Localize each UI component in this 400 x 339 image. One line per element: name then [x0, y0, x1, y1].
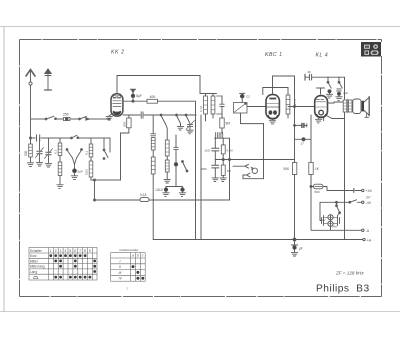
IF trafo1 coil right — [211, 94, 215, 119]
svg-text:2: 2 — [55, 249, 57, 253]
main chassis bus y200 — [95, 199, 230, 201]
battery cells — [322, 213, 340, 227]
L810 dot ground left — [163, 188, 169, 196]
svg-text:Mittel lang: Mittel lang — [30, 265, 45, 269]
coil L2 upper — [89, 138, 93, 157]
coil L1 upper — [58, 138, 62, 156]
electrolytic 8uF on bus — [291, 238, 297, 256]
svg-text:Schalter: Schalter — [30, 249, 43, 253]
coil 500 — [29, 138, 33, 163]
resistor 1M — [220, 165, 226, 182]
svg-text:4F: 4F — [308, 70, 312, 74]
svg-text:0,4M: 0,4M — [226, 149, 233, 153]
resistor 1K — [309, 163, 313, 187]
AVC rail vertical x229.5 — [229, 138, 231, 200]
trimmer T1 — [36, 138, 44, 166]
svg-text:1M: 1M — [227, 169, 232, 173]
wire — [70, 118, 79, 120]
resistor 5M — [220, 114, 224, 133]
junction — [30, 137, 32, 139]
speaker driver bar — [362, 101, 364, 112]
terminal +A — [363, 238, 365, 240]
L810 dot ground right — [179, 188, 185, 196]
switch table phone icon — [34, 276, 38, 278]
svg-text:17: 17 — [301, 142, 305, 146]
svg-text:KK 2: KK 2 — [111, 50, 125, 56]
osc coil column x153 — [151, 115, 156, 240]
junction dot — [94, 199, 96, 201]
schematic border frame — [20, 40, 382, 297]
tube KL4 — [315, 96, 328, 118]
KL4 top stub — [317, 88, 325, 94]
grid rail y115 — [123, 114, 196, 116]
grid leak box — [234, 103, 248, 114]
wave switch wire (y=119) — [31, 118, 46, 120]
scan page bottom edge — [0, 311, 400, 313]
scan page top edge — [0, 26, 400, 28]
svg-text:-A: -A — [366, 229, 370, 233]
svg-text:KBC 1: KBC 1 — [265, 52, 283, 58]
svg-text:5M: 5M — [226, 122, 231, 126]
resistor 50K — [292, 163, 296, 175]
speaker cone — [364, 97, 369, 118]
resistor 40K — [147, 99, 158, 103]
antenna A2 — [45, 69, 52, 90]
rail corner down to IF transformer — [200, 76, 204, 94]
switch S1 — [45, 116, 56, 120]
grid trimmer cap dot — [240, 93, 245, 102]
top HT rail — [117, 75, 200, 77]
speaker magnet body — [353, 99, 361, 114]
ground under padder — [71, 176, 77, 180]
svg-text:III: III — [119, 271, 122, 275]
svg-text:8: 8 — [84, 249, 86, 253]
svg-text:I: I — [120, 259, 121, 263]
svg-text:0,1: 0,1 — [54, 149, 58, 154]
svg-text:5µF: 5µF — [78, 170, 83, 174]
series capacitor — [37, 135, 40, 141]
svg-text:4: 4 — [65, 249, 67, 253]
IF trafo1 coil left — [204, 94, 208, 122]
svg-text:6: 6 — [74, 249, 76, 253]
switch to -4V — [349, 200, 362, 203]
KBC1 ground — [269, 119, 275, 124]
jack feed wire y159.5 — [215, 159, 294, 161]
KL4 side pin wire — [327, 116, 345, 119]
battery fuse 500 — [310, 184, 362, 192]
heater wire y202 — [320, 201, 349, 203]
cathode wire y124 — [241, 113, 264, 124]
svg-text:500: 500 — [315, 190, 320, 194]
terminal -4V — [362, 201, 364, 203]
osc switch blade A — [160, 114, 167, 128]
svg-text:(4V): (4V) — [332, 225, 337, 229]
svg-text:ZF = 128 kHz: ZF = 128 kHz — [335, 271, 364, 276]
svg-text:500: 500 — [24, 150, 28, 156]
switch drop S5 — [326, 77, 332, 98]
cap 100 — [212, 138, 219, 165]
scan page left edge — [3, 27, 5, 312]
svg-text:IV: IV — [119, 277, 123, 281]
long vertical x201 — [200, 115, 202, 240]
trimmer T2 — [45, 138, 53, 167]
antenna A1 — [26, 70, 35, 139]
svg-text:0,1,0: 0,1,0 — [199, 105, 203, 112]
junction x336 — [336, 201, 338, 203]
wire to tube column — [90, 118, 111, 120]
svg-text:b: b — [137, 254, 139, 258]
osc switch blade C with trimmer — [185, 114, 194, 134]
svg-text:Philips B3: Philips B3 — [316, 284, 370, 295]
L810 pair header wire — [166, 171, 183, 188]
svg-text:250: 250 — [63, 113, 69, 117]
IF coil bottom hatch — [215, 133, 230, 139]
svg-text:8µF: 8µF — [136, 94, 142, 98]
junction dot y139 — [302, 138, 305, 141]
svg-text:3: 3 — [60, 249, 62, 253]
KL4 cathode ground — [315, 118, 323, 123]
KL4 anode wire to transformer — [327, 102, 343, 103]
switch drop S6 with cap — [336, 77, 342, 100]
wire — [56, 118, 64, 120]
svg-text:C2: C2 — [246, 95, 250, 99]
svg-text:Kurz: Kurz — [30, 254, 37, 258]
resistor 20K — [121, 115, 132, 180]
switch table (bottom left) — [29, 248, 97, 281]
IF trafo1 tuning cap — [217, 96, 225, 114]
svg-text:0,1: 0,1 — [85, 150, 89, 155]
osc coil column x167 — [165, 128, 169, 179]
lower input wire (y=138) — [31, 137, 111, 139]
IF trafo1 top bar — [204, 93, 217, 95]
svg-text:5000: 5000 — [201, 167, 208, 171]
svg-text:II: II — [119, 265, 121, 269]
tube KBC1 — [266, 95, 279, 119]
battery bottom drop to -A line — [330, 227, 332, 231]
component 250 — [64, 117, 70, 120]
ground under L1 — [57, 185, 63, 189]
svg-text:a: a — [132, 254, 134, 258]
battery left rail — [311, 175, 362, 231]
osc trimmer blade — [182, 161, 188, 172]
heater rail drop to battery — [320, 202, 322, 220]
resistor 0.4M — [221, 138, 225, 165]
lower bus y239.5 — [153, 239, 362, 241]
svg-text:-4V: -4V — [366, 201, 372, 205]
KBC1 inner loop — [263, 88, 288, 96]
OT secondary drop x344.5 — [344, 77, 346, 239]
svg-text:4µF: 4µF — [343, 91, 348, 95]
terminal +4V — [362, 189, 364, 191]
ground under x167 — [164, 179, 170, 183]
svg-text:Lang: Lang — [30, 270, 37, 274]
svg-text:2V: 2V — [322, 218, 326, 222]
KBC1 top loop — [273, 76, 295, 94]
svg-text:L810: L810 — [156, 188, 163, 192]
band table dots — [132, 265, 145, 280]
svg-text:40K: 40K — [150, 95, 157, 99]
long vertical x195.5 — [195, 101, 197, 239]
svg-text:1K: 1K — [315, 167, 320, 171]
svg-text:+A: +A — [367, 238, 372, 242]
switch S3 — [71, 135, 79, 139]
antenna coupling terminal — [131, 89, 136, 101]
svg-text:Funktionsschalter: Funktionsschalter — [120, 249, 139, 252]
IF trafo2 coil — [286, 95, 290, 118]
padder cap blob — [73, 165, 77, 176]
coupling cap on detector rail — [294, 123, 307, 127]
svg-text:20K: 20K — [122, 122, 126, 127]
svg-text:KL 4: KL 4 — [316, 53, 329, 59]
tube KK2 top lead — [116, 76, 118, 94]
svg-text:100: 100 — [205, 149, 210, 153]
junction — [132, 100, 134, 102]
anode rail y101 — [123, 100, 147, 102]
svg-text:7: 7 — [79, 249, 81, 253]
ground under 500 — [27, 163, 33, 167]
svg-text:c: c — [142, 254, 144, 258]
KL4 grid feed wire — [288, 106, 315, 108]
osc switch blade B — [176, 114, 184, 130]
fuse 0.1A — [140, 198, 149, 202]
svg-text:0,03: 0,03 — [85, 169, 89, 175]
svg-text:Mittel: Mittel — [30, 259, 38, 263]
wire B corner down — [109, 138, 111, 152]
terminal -A — [362, 229, 364, 231]
grid terminal with cap — [305, 74, 345, 80]
junction — [294, 106, 296, 108]
switch table texts — [30, 249, 91, 274]
svg-text:9: 9 — [89, 249, 91, 253]
cap 5000 — [212, 165, 219, 181]
svg-text:0,1A: 0,1A — [140, 193, 147, 197]
tube KK2 — [111, 94, 123, 116]
cap 0.1 on rail — [141, 112, 143, 118]
output transformer — [343, 99, 352, 113]
svg-text:+4V: +4V — [366, 189, 373, 193]
band table (second table) — [111, 253, 146, 282]
svg-text:2: 2 — [127, 287, 129, 291]
KK2 ground — [106, 114, 112, 120]
svg-text:2V: 2V — [365, 196, 371, 200]
svg-text:µF: µF — [299, 247, 303, 251]
wire to KBC1 grid — [247, 106, 266, 108]
detector rail x294.5 — [294, 76, 296, 240]
coil L1 lower — [58, 156, 62, 185]
wire y139 — [295, 115, 312, 163]
band table texts — [119, 249, 144, 281]
battery selector blade — [336, 202, 341, 213]
padding cap x176 — [174, 135, 178, 171]
switch table dots — [49, 254, 96, 278]
switch S2 — [79, 116, 90, 120]
wire y180 to bus drop — [91, 180, 121, 200]
miniwatt logo box — [361, 42, 381, 57]
switch S4 — [103, 138, 108, 159]
earphone jack — [233, 124, 264, 179]
svg-text:0,1,8: 0,1,8 — [293, 99, 297, 106]
rail y101 cont — [158, 100, 196, 102]
band switch blades V pair — [66, 149, 82, 165]
coil L2 lower — [89, 157, 93, 180]
svg-text:50K: 50K — [284, 167, 291, 171]
svg-text:5: 5 — [69, 249, 71, 253]
svg-text:1: 1 — [50, 249, 52, 253]
